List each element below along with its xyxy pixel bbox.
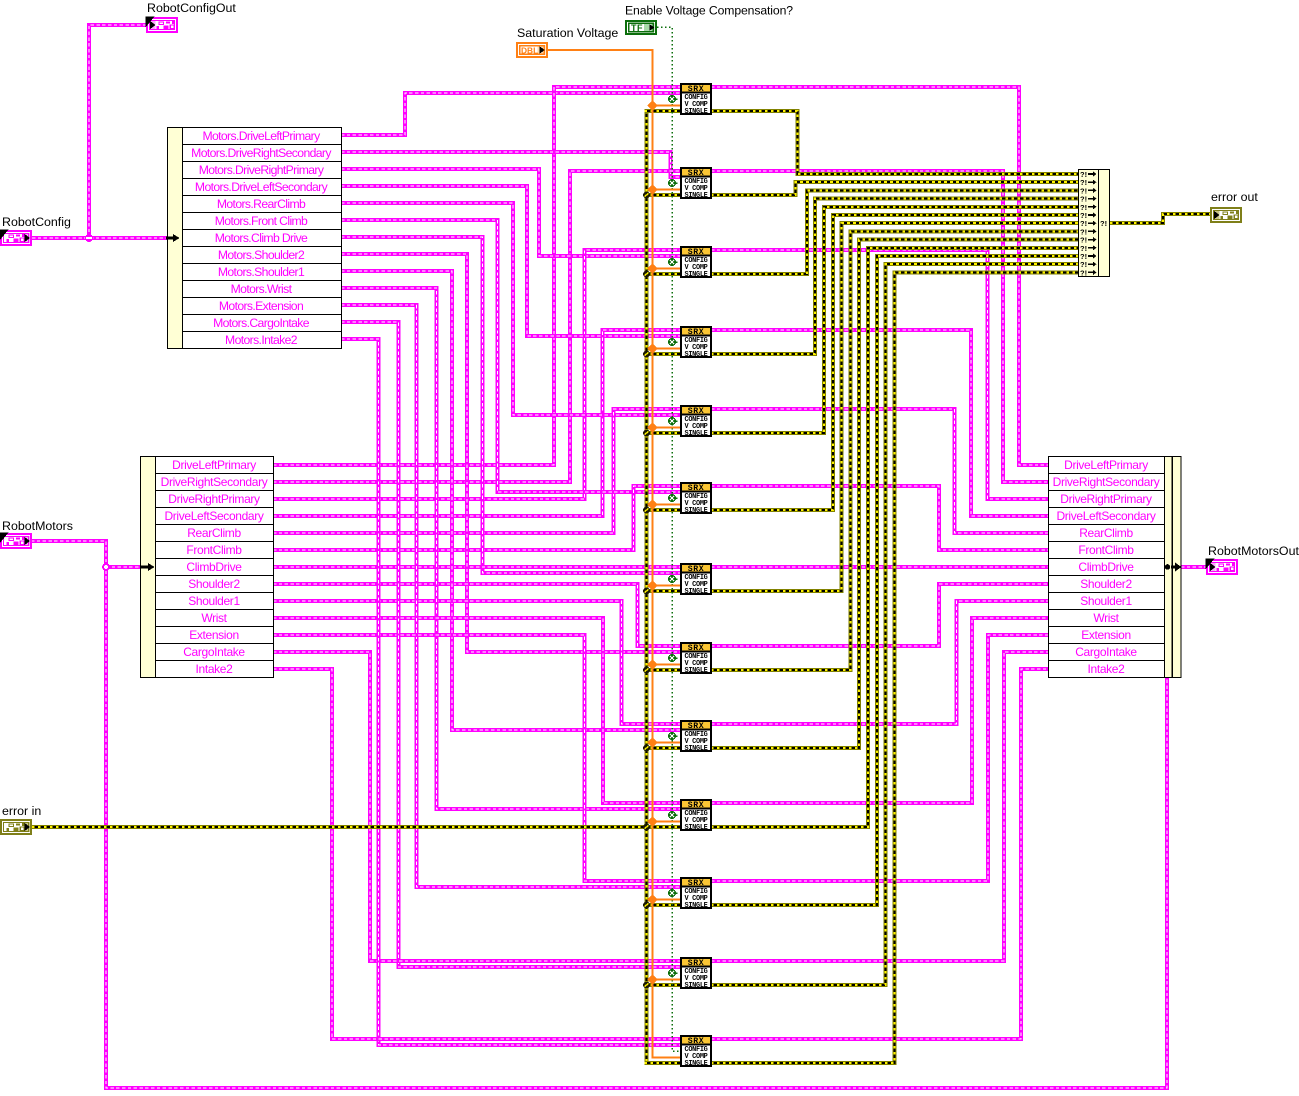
svg-text:Motors.DriveLeftPrimary: Motors.DriveLeftPrimary	[202, 129, 321, 143]
wire error out of SRX VI 1 to Merge Errors row 1	[711, 111, 1078, 174]
wire error in from control to error bus	[32, 825, 647, 829]
wire error out of SRX VI 8 to Merge Errors row 8	[711, 231, 1078, 670]
svg-text:CargoIntake: CargoIntake	[1075, 645, 1137, 659]
sub-VI SRX CONFIG VCOMP SINGLE #3	[681, 247, 711, 279]
wire motor element 4 from Unbundle2 to SRX VI 4	[273, 330, 681, 516]
wire error stub into SRX VI 6	[645, 508, 682, 512]
junction error bus at SRX VI 11	[643, 902, 650, 909]
sub-VI SRX CONFIG VCOMP SINGLE #2	[681, 168, 711, 200]
wire error out of SRX VI 13 to Merge Errors row 13	[711, 272, 1078, 1063]
wire error stub into SRX VI 8	[645, 668, 682, 672]
wire config element 5 from Unbundle1 to SRX VI 5	[341, 203, 681, 415]
sub-VI SRX CONFIG VCOMP SINGLE #10	[681, 800, 711, 832]
junction numeric wire at SRX VI 9	[647, 737, 657, 747]
svg-text:Motors.Wrist: Motors.Wrist	[231, 282, 293, 296]
wire Bundle output to RobotMotorsOut	[1181, 565, 1207, 569]
svg-text:RobotConfigOut: RobotConfigOut	[147, 1, 236, 15]
control terminal Saturation Voltage (DBL)	[517, 43, 547, 57]
svg-text:DriveLeftSecondary: DriveLeftSecondary	[164, 509, 263, 523]
wire output 1 from SRX VI 1 to Bundle	[711, 87, 1048, 465]
junction RobotConfig wire	[85, 234, 93, 242]
wire motor element 7 from Unbundle2 to SRX VI 7	[273, 565, 681, 569]
wire error out of SRX VI 5 to Merge Errors row 5	[711, 207, 1078, 433]
junction boolean wire at SRX VI 2	[668, 179, 676, 187]
wire error out of SRX VI 10 to Merge Errors row 10	[711, 248, 1078, 827]
junction error bus at SRX VI 2	[643, 192, 650, 199]
sub-VI SRX CONFIG VCOMP SINGLE #6	[681, 483, 711, 515]
wire error out of SRX VI 2 to Merge Errors row 2	[711, 182, 1078, 195]
label error in	[2, 804, 41, 818]
wire config element 7 from Unbundle1 to SRX VI 7	[341, 237, 681, 573]
svg-text:SINGLE: SINGLE	[684, 588, 707, 596]
wire error stub into SRX VI 7	[645, 589, 682, 593]
junction numeric wire at SRX VI 8	[647, 659, 657, 669]
svg-text:Shoulder1: Shoulder1	[188, 594, 240, 608]
wire error out of SRX VI 3 to Merge Errors row 3	[711, 190, 1078, 274]
svg-text:error in: error in	[2, 804, 41, 818]
junction error bus at SRX VI 3	[643, 271, 650, 278]
wire output 2 from SRX VI 2 to Bundle	[711, 171, 1048, 482]
svg-text:DriveLeftPrimary: DriveLeftPrimary	[1064, 458, 1148, 472]
svg-text:TF: TF	[631, 23, 643, 33]
junction error bus at SRX VI 5	[643, 430, 650, 437]
wire motor element 6 from Unbundle2 to SRX VI 6	[273, 486, 681, 550]
wire output 9 from SRX VI 9 to Bundle	[711, 601, 1048, 724]
indicator terminal error out	[1211, 208, 1241, 222]
wire config element 8 from Unbundle1 to SRX VI 8	[341, 254, 681, 652]
svg-text:DriveLeftSecondary: DriveLeftSecondary	[1056, 509, 1155, 523]
svg-text:Motors.CargoIntake: Motors.CargoIntake	[213, 316, 310, 330]
svg-text:Intake2: Intake2	[1088, 662, 1126, 676]
svg-text:RobotMotors: RobotMotors	[2, 519, 73, 533]
svg-text:DriveRightSecondary: DriveRightSecondary	[161, 475, 268, 489]
wire motor element 12 from Unbundle2 to SRX VI 12	[273, 652, 681, 961]
wire config element 2 from Unbundle1 to SRX VI 2	[341, 152, 681, 177]
wire error stub into SRX VI 4	[645, 352, 682, 356]
svg-text:Extension: Extension	[189, 628, 239, 642]
sub-VI SRX CONFIG VCOMP SINGLE #5	[681, 406, 711, 438]
label RobotMotors	[2, 519, 73, 533]
sub-VI SRX CONFIG VCOMP SINGLE #7	[681, 564, 711, 596]
svg-text:Wrist: Wrist	[1093, 611, 1119, 625]
svg-text:SRX: SRX	[688, 484, 705, 493]
unbundle-by-name node RobotMotors	[141, 457, 274, 678]
wire config element 11 from Unbundle1 to SRX VI 11	[341, 305, 681, 887]
bundle-by-name node RobotMotorsOut	[1049, 457, 1182, 678]
svg-text:ClimbDrive: ClimbDrive	[1078, 560, 1134, 574]
junction numeric wire at SRX VI 12	[647, 974, 657, 984]
sub-VI SRX CONFIG VCOMP SINGLE #11	[681, 878, 711, 910]
svg-text:SRX: SRX	[688, 248, 705, 257]
svg-text:SINGLE: SINGLE	[684, 824, 707, 832]
wire error stub into SRX VI 11	[645, 903, 682, 907]
wire output 8 from SRX VI 8 to Bundle	[711, 584, 1048, 646]
svg-text:Motors.DriveLeftSecondary: Motors.DriveLeftSecondary	[195, 180, 329, 194]
svg-text:Shoulder2: Shoulder2	[188, 577, 240, 591]
junction RobotMotors wire	[103, 564, 109, 570]
junction boolean wire at SRX VI 4	[668, 338, 676, 346]
wire motor element 11 from Unbundle2 to SRX VI 11	[273, 635, 681, 881]
svg-text:Shoulder2: Shoulder2	[1080, 577, 1132, 591]
input arrow unbundle2	[141, 563, 155, 571]
svg-text:DriveRightPrimary: DriveRightPrimary	[1060, 492, 1152, 506]
input arrow unbundle1	[166, 234, 180, 242]
label error out	[1211, 190, 1258, 204]
svg-text:DriveLeftPrimary: DriveLeftPrimary	[172, 458, 256, 472]
wire motor element 5 from Unbundle2 to SRX VI 5	[273, 409, 681, 533]
svg-text:SRX: SRX	[688, 565, 705, 574]
svg-text:SINGLE: SINGLE	[684, 108, 707, 116]
wire output 13 from SRX VI 13 to Bundle	[711, 669, 1048, 1039]
sub-VI SRX CONFIG VCOMP SINGLE #1	[681, 84, 711, 116]
svg-text:SRX: SRX	[688, 407, 705, 416]
wire output 5 from SRX VI 5 to Bundle	[711, 409, 1048, 533]
svg-text:DriveRightSecondary: DriveRightSecondary	[1053, 475, 1160, 489]
junction boolean wire at SRX VI 12	[668, 969, 676, 977]
wire error stub into SRX VI 12	[645, 983, 682, 987]
merge errors node	[1079, 170, 1110, 278]
svg-text:Shoulder1: Shoulder1	[1080, 594, 1132, 608]
wire motor element 1 from Unbundle2 to SRX VI 1	[273, 87, 681, 465]
junction boolean wire at SRX VI 8	[668, 654, 676, 662]
sub-VI SRX CONFIG VCOMP SINGLE #13	[681, 1036, 711, 1068]
wire error out of SRX VI 12 to Merge Errors row 12	[711, 264, 1078, 985]
wire error stub into SRX VI 1	[645, 109, 682, 113]
junction boolean wire at SRX VI 9	[668, 732, 676, 740]
svg-text:Motors.Climb Drive: Motors.Climb Drive	[215, 231, 308, 245]
label Enable Voltage Compensation?	[625, 4, 793, 18]
svg-text:SRX: SRX	[688, 644, 705, 653]
svg-text:SINGLE: SINGLE	[684, 192, 707, 200]
svg-text:SINGLE: SINGLE	[684, 507, 707, 515]
wire RobotConfig to Unbundle1	[32, 236, 168, 240]
wire output 12 from SRX VI 12 to Bundle	[711, 652, 1048, 961]
wire merge errors output to error out	[1110, 214, 1210, 223]
wire Enable Voltage Compensation boolean	[657, 27, 681, 1051]
wire error bus vertical	[645, 111, 649, 1063]
wire error stub into SRX VI 9	[645, 746, 682, 750]
wire error out of SRX VI 11 to Merge Errors row 11	[711, 256, 1078, 905]
junction boolean wire at SRX VI 3	[668, 258, 676, 266]
junction numeric wire at SRX VI 11	[647, 894, 657, 904]
svg-text:Saturation Voltage: Saturation Voltage	[517, 26, 618, 40]
wire error stub into SRX VI 13	[645, 1061, 682, 1065]
junction error bus at SRX VI 4	[643, 351, 650, 358]
junction numeric wire at SRX VI 7	[647, 580, 657, 590]
junction numeric wire at SRX VI 5	[647, 422, 657, 432]
svg-text:?!: ?!	[1080, 268, 1087, 277]
wire output 6 from SRX VI 6 to Bundle	[711, 486, 1048, 550]
wire error stub into SRX VI 5	[645, 431, 682, 435]
svg-text:Motors.Shoulder1: Motors.Shoulder1	[218, 265, 305, 279]
svg-text:FrontClimb: FrontClimb	[1078, 543, 1134, 557]
wire RobotMotors branch to Unbundle2	[106, 565, 143, 569]
wire motor element 8 from Unbundle2 to SRX VI 8	[273, 584, 681, 646]
junction boolean wire at SRX VI 6	[668, 494, 676, 502]
svg-text:Motors.Front Climb: Motors.Front Climb	[215, 214, 308, 228]
svg-text:DriveRightPrimary: DriveRightPrimary	[168, 492, 260, 506]
wire error stub into SRX VI 3	[645, 272, 682, 276]
wire error out of SRX VI 6 to Merge Errors row 6	[711, 215, 1078, 510]
label RobotMotorsOut	[1208, 544, 1299, 558]
junction boolean wire at SRX VI 5	[668, 417, 676, 425]
label RobotConfig	[2, 215, 71, 229]
wire error out of SRX VI 4 to Merge Errors row 4	[711, 199, 1078, 354]
wire motor element 3 from Unbundle2 to SRX VI 3	[273, 250, 681, 499]
sub-VI SRX CONFIG VCOMP SINGLE #8	[681, 643, 711, 675]
svg-text:SINGLE: SINGLE	[684, 902, 707, 910]
wire config element 3 from Unbundle1 to SRX VI 3	[341, 169, 681, 256]
wire RobotConfig branch to RobotConfigOut	[89, 25, 146, 238]
svg-text:SRX: SRX	[688, 169, 705, 178]
wire config element 1 from Unbundle1 to SRX VI 1	[341, 93, 681, 135]
svg-text:SRX: SRX	[688, 959, 705, 968]
svg-text:SRX: SRX	[688, 879, 705, 888]
wire output 7 from SRX VI 7 to Bundle	[711, 565, 1048, 569]
wire output 11 from SRX VI 11 to Bundle	[711, 635, 1048, 881]
wire motor element 2 from Unbundle2 to SRX VI 2	[273, 171, 681, 482]
junction error bus at SRX VI 9	[643, 745, 650, 752]
junction numeric wire at SRX VI 10	[647, 816, 657, 826]
svg-text:error out: error out	[1211, 190, 1258, 204]
junction error bus at SRX VI 12	[643, 982, 650, 989]
svg-text:DBL: DBL	[521, 46, 538, 56]
junction numeric wire at SRX VI 4	[647, 343, 657, 353]
wire output 3 from SRX VI 3 to Bundle	[711, 250, 1048, 499]
svg-text:RearClimb: RearClimb	[1079, 526, 1133, 540]
junction error bus at SRX VI 8	[643, 667, 650, 674]
svg-text:RearClimb: RearClimb	[187, 526, 241, 540]
svg-text:Wrist: Wrist	[201, 611, 227, 625]
wire config element 12 from Unbundle1 to SRX VI 12	[341, 322, 681, 967]
svg-text:SINGLE: SINGLE	[684, 430, 707, 438]
svg-text:SRX: SRX	[688, 85, 705, 94]
unbundle-by-name node RobotConfig (Motors.*)	[168, 128, 342, 349]
svg-text:SRX: SRX	[688, 328, 705, 337]
control terminal Enable Voltage Compensation? (TF)	[626, 21, 656, 34]
wire RobotMotors main run (down, bottom, up into Bundle)	[31, 541, 1167, 1088]
svg-text:FrontClimb: FrontClimb	[186, 543, 242, 557]
indicator terminal RobotConfigOut	[146, 17, 178, 33]
svg-text:SRX: SRX	[688, 722, 705, 731]
svg-text:Enable Voltage Compensation?: Enable Voltage Compensation?	[625, 4, 793, 18]
junction error bus at SRX VI 10	[643, 824, 650, 831]
wire config element 4 from Unbundle1 to SRX VI 4	[341, 186, 681, 336]
sub-VI SRX CONFIG VCOMP SINGLE #9	[681, 721, 711, 753]
wire error out of SRX VI 7 to Merge Errors row 7	[711, 223, 1078, 591]
wire config element 6 from Unbundle1 to SRX VI 6	[341, 220, 681, 492]
svg-text:SINGLE: SINGLE	[684, 745, 707, 753]
wire motor element 10 from Unbundle2 to SRX VI 10	[273, 618, 681, 803]
junction error bus at SRX VI 7	[643, 588, 650, 595]
junction boolean wire at SRX VI 11	[668, 889, 676, 897]
wire config element 13 from Unbundle1 to SRX VI 13	[341, 339, 681, 1045]
wire error out of SRX VI 9 to Merge Errors row 9	[711, 240, 1078, 748]
wire config element 9 from Unbundle1 to SRX VI 9	[341, 271, 681, 730]
bundle input-cluster dot and output arrow	[1165, 563, 1182, 572]
svg-text:RobotMotorsOut: RobotMotorsOut	[1208, 544, 1299, 558]
junction numeric wire at SRX VI 6	[647, 499, 657, 509]
junction numeric wire at SRX VI 2	[647, 184, 657, 194]
svg-text:Motors.RearClimb: Motors.RearClimb	[217, 197, 306, 211]
svg-text:?!: ?!	[1100, 219, 1107, 228]
svg-text:Motors.DriveRightPrimary: Motors.DriveRightPrimary	[199, 163, 325, 177]
wire error stub into SRX VI 10	[645, 825, 682, 829]
svg-text:SINGLE: SINGLE	[684, 351, 707, 359]
junction error bus at SRX VI 6	[643, 507, 650, 514]
svg-text:Motors.DriveRightSecondary: Motors.DriveRightSecondary	[191, 146, 332, 160]
sub-VI SRX CONFIG VCOMP SINGLE #4	[681, 327, 711, 359]
junction numeric wire at SRX VI 1	[647, 100, 657, 110]
svg-text:Motors.Intake2: Motors.Intake2	[225, 333, 298, 347]
wire output 4 from SRX VI 4 to Bundle	[711, 330, 1048, 516]
wire error stub into SRX VI 2	[645, 193, 682, 197]
junction boolean wire at SRX VI 7	[668, 575, 676, 583]
wire motor element 9 from Unbundle2 to SRX VI 9	[273, 601, 681, 724]
wire config element 10 from Unbundle1 to SRX VI 10	[341, 288, 681, 809]
svg-text:Intake2: Intake2	[196, 662, 234, 676]
control terminal error in	[1, 820, 31, 834]
sub-VI SRX CONFIG VCOMP SINGLE #12	[681, 958, 711, 990]
svg-text:SRX: SRX	[688, 1037, 705, 1046]
control terminal RobotMotors	[0, 533, 31, 549]
svg-text:RobotConfig: RobotConfig	[2, 215, 71, 229]
svg-text:SINGLE: SINGLE	[684, 667, 707, 675]
indicator terminal RobotMotorsOut	[1206, 559, 1238, 575]
wire Saturation Voltage numeric	[548, 50, 681, 1058]
svg-text:CargoIntake: CargoIntake	[183, 645, 245, 659]
label Saturation Voltage	[517, 26, 618, 40]
svg-text:ClimbDrive: ClimbDrive	[186, 560, 242, 574]
junction boolean wire at SRX VI 1	[668, 95, 676, 103]
label RobotConfigOut	[147, 1, 236, 15]
svg-text:SINGLE: SINGLE	[684, 1060, 707, 1068]
svg-text:Motors.Extension: Motors.Extension	[219, 299, 303, 313]
svg-text:SINGLE: SINGLE	[684, 982, 707, 990]
svg-text:SRX: SRX	[688, 801, 705, 810]
junction numeric wire at SRX VI 3	[647, 263, 657, 273]
wire output 10 from SRX VI 10 to Bundle	[711, 618, 1048, 803]
control terminal RobotConfig	[0, 230, 31, 246]
svg-text:Extension: Extension	[1081, 628, 1131, 642]
junction boolean wire at SRX VI 10	[668, 811, 676, 819]
wire motor element 13 from Unbundle2 to SRX VI 13	[273, 669, 681, 1039]
svg-text:Motors.Shoulder2: Motors.Shoulder2	[218, 248, 305, 262]
svg-text:SINGLE: SINGLE	[684, 271, 707, 279]
